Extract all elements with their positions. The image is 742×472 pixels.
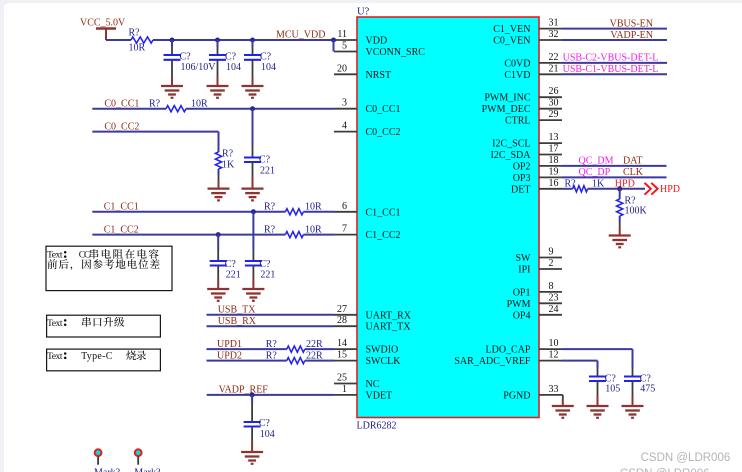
svg-text:R?: R?	[565, 179, 577, 190]
svg-text:31: 31	[549, 18, 559, 29]
svg-text:21: 21	[549, 63, 559, 74]
svg-text:OP4: OP4	[513, 310, 531, 321]
svg-text:PWM: PWM	[507, 299, 531, 310]
svg-text:19: 19	[549, 166, 559, 177]
svg-text:221: 221	[260, 165, 275, 176]
svg-text:OP1: OP1	[513, 287, 531, 298]
svg-text:29: 29	[549, 109, 559, 120]
svg-text:C?: C?	[225, 259, 237, 270]
svg-text:5: 5	[342, 41, 347, 52]
svg-text:PGND: PGND	[503, 390, 530, 401]
svg-text:C0VD: C0VD	[504, 58, 530, 69]
svg-text:NC: NC	[366, 379, 380, 390]
svg-text:9: 9	[549, 247, 554, 258]
svg-text:DAT: DAT	[623, 156, 642, 167]
svg-text:221: 221	[226, 270, 241, 281]
svg-text:8: 8	[549, 281, 554, 292]
svg-text:QC_DM: QC_DM	[579, 156, 614, 167]
svg-text:3: 3	[342, 98, 347, 109]
svg-text:R?: R?	[264, 224, 276, 235]
svg-text:U?: U?	[357, 7, 370, 18]
svg-text:C1_VEN: C1_VEN	[493, 24, 530, 35]
svg-text:18: 18	[549, 155, 559, 166]
svg-text:26: 26	[549, 86, 559, 97]
svg-text:15: 15	[337, 350, 347, 361]
svg-text:13: 13	[549, 132, 559, 143]
svg-text:100K: 100K	[625, 206, 648, 217]
svg-text:Text: Text	[47, 250, 63, 261]
svg-text:UART_TX: UART_TX	[366, 322, 412, 333]
svg-text:C?: C?	[259, 155, 271, 166]
svg-text:10R: 10R	[191, 99, 208, 110]
svg-text:24: 24	[549, 304, 559, 315]
svg-text:30: 30	[549, 98, 559, 109]
svg-text:6: 6	[342, 201, 347, 212]
svg-text:475: 475	[640, 384, 655, 395]
svg-text:Text: Text	[47, 351, 63, 362]
svg-text:10R: 10R	[305, 202, 322, 213]
svg-text:SAR_ADC_VREF: SAR_ADC_VREF	[454, 356, 531, 367]
svg-text:UART_RX: UART_RX	[366, 310, 412, 321]
svg-text:7: 7	[342, 224, 347, 235]
svg-text:Type-C: Type-C	[81, 351, 113, 362]
svg-text:22R: 22R	[306, 350, 323, 361]
svg-text:C1VD: C1VD	[504, 70, 530, 81]
svg-text:LDO_CAP: LDO_CAP	[485, 345, 530, 356]
svg-text:SW: SW	[516, 253, 532, 264]
svg-text:USB-C2-VBUS-DET-L: USB-C2-VBUS-DET-L	[563, 53, 659, 64]
svg-text:R?: R?	[129, 28, 141, 39]
svg-text:Mark?: Mark?	[94, 468, 121, 472]
svg-text:VBUS-EN: VBUS-EN	[610, 18, 653, 29]
svg-text:C1_CC1: C1_CC1	[366, 207, 401, 218]
svg-text:R?: R?	[266, 350, 278, 361]
svg-text:104: 104	[260, 429, 275, 440]
svg-text:221: 221	[260, 270, 275, 281]
svg-text:22R: 22R	[306, 339, 323, 350]
svg-text:C?: C?	[225, 51, 237, 62]
svg-text:SWCLK: SWCLK	[366, 356, 402, 367]
svg-text:PWM_DEC: PWM_DEC	[482, 104, 531, 115]
svg-text:R?: R?	[266, 339, 278, 350]
svg-text:Mark?: Mark?	[134, 468, 161, 472]
svg-text:104: 104	[261, 62, 276, 73]
svg-text:VCONN_SRC: VCONN_SRC	[366, 47, 426, 58]
svg-text:CSDN @LDR006: CSDN @LDR006	[620, 468, 710, 472]
svg-text:C?: C?	[259, 259, 271, 270]
svg-text:C1_CC2: C1_CC2	[366, 230, 401, 241]
svg-text:HPD: HPD	[660, 184, 680, 195]
svg-text:R?: R?	[222, 149, 234, 160]
svg-text:C0_CC1: C0_CC1	[366, 104, 401, 115]
svg-text:4: 4	[342, 121, 347, 132]
svg-text:17: 17	[549, 144, 559, 155]
svg-text:27: 27	[337, 304, 347, 315]
svg-text:I2C_SCL: I2C_SCL	[492, 139, 530, 150]
svg-text:VDET: VDET	[366, 390, 393, 401]
svg-text:R?: R?	[149, 99, 161, 110]
svg-text:VCC_5.0V: VCC_5.0V	[80, 18, 126, 29]
svg-text:I2C_SDA: I2C_SDA	[490, 150, 531, 161]
svg-text:CTRL: CTRL	[505, 116, 531, 127]
svg-text:NRST: NRST	[366, 70, 392, 81]
svg-text:105: 105	[605, 384, 620, 395]
svg-text:16: 16	[549, 178, 559, 189]
svg-text:12: 12	[549, 350, 559, 361]
svg-text:C0_CC2: C0_CC2	[366, 127, 401, 138]
svg-text:22: 22	[549, 52, 559, 63]
svg-text:C?: C?	[260, 51, 272, 62]
svg-text:20: 20	[337, 63, 347, 74]
svg-text:C?: C?	[180, 51, 192, 62]
svg-text:IPI: IPI	[518, 265, 530, 276]
svg-text:C0_VEN: C0_VEN	[493, 36, 530, 47]
svg-text:MCU_VDD: MCU_VDD	[276, 29, 325, 40]
svg-text:USB-C1-VBUS-DET-L: USB-C1-VBUS-DET-L	[563, 64, 659, 75]
svg-text:2: 2	[549, 258, 554, 269]
svg-text:10: 10	[549, 338, 559, 349]
svg-text:1K: 1K	[592, 179, 605, 190]
svg-text:VADP-EN: VADP-EN	[610, 30, 653, 41]
svg-text:Text: Text	[47, 318, 63, 329]
svg-text:32: 32	[549, 29, 559, 40]
svg-text:1: 1	[342, 384, 347, 395]
svg-text:25: 25	[337, 373, 347, 384]
svg-text:DET: DET	[511, 184, 530, 195]
svg-text:10R: 10R	[305, 224, 322, 235]
svg-text:106/10V: 106/10V	[181, 62, 217, 73]
svg-text:10R: 10R	[129, 43, 146, 54]
svg-text:28: 28	[337, 315, 347, 326]
svg-text:CC: CC	[79, 251, 90, 261]
svg-text:23: 23	[549, 292, 559, 303]
svg-text:QC_DP: QC_DP	[579, 167, 611, 178]
svg-text:33: 33	[549, 384, 559, 395]
svg-text:OP2: OP2	[513, 161, 531, 172]
svg-text:CLK: CLK	[623, 167, 644, 178]
svg-text:CSDN @LDR006: CSDN @LDR006	[641, 452, 731, 464]
svg-text:1K: 1K	[222, 160, 235, 171]
svg-text:11: 11	[337, 29, 347, 40]
svg-text:14: 14	[337, 338, 347, 349]
svg-text:C?: C?	[259, 418, 271, 429]
svg-text:LDR6282: LDR6282	[357, 421, 397, 432]
svg-text:SWDIO: SWDIO	[366, 345, 399, 356]
svg-text:VDD: VDD	[366, 36, 388, 47]
svg-text:R?: R?	[264, 202, 276, 213]
svg-text:PWM_INC: PWM_INC	[484, 93, 530, 104]
svg-text:104: 104	[226, 62, 241, 73]
svg-text:OP3: OP3	[513, 173, 531, 184]
